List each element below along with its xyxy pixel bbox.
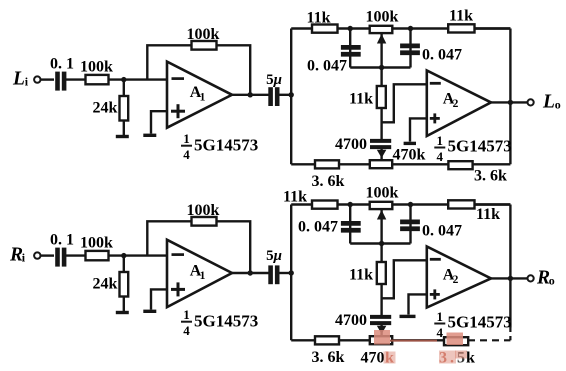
svg-text:24k: 24k xyxy=(93,275,118,292)
svg-text:11k: 11k xyxy=(449,8,473,25)
svg-text:100k: 100k xyxy=(366,185,399,202)
watermark red blob over 3.6k resistor xyxy=(447,333,464,346)
capacitor 4700 xyxy=(335,136,391,160)
wire A1 output xyxy=(232,272,269,274)
resistor 11k top-left xyxy=(283,189,338,209)
svg-text:o: o xyxy=(555,97,561,111)
watermark red blob over 470k resistor xyxy=(374,330,390,345)
resistor 11k top-left xyxy=(306,9,337,32)
svg-text:1: 1 xyxy=(183,131,190,146)
wire input to C-in xyxy=(41,254,55,256)
svg-text:L: L xyxy=(12,69,25,90)
resistor 11k top-right xyxy=(448,200,500,223)
wire A2 output xyxy=(491,277,527,279)
node top rail left junction xyxy=(348,26,353,31)
label 1/4 5G14573 for A2 xyxy=(434,309,511,340)
resistor 11k middle vertical xyxy=(349,244,386,285)
resistor 100k feedback of A1 xyxy=(187,26,220,50)
capacitor 0.1 (C5) xyxy=(50,232,74,267)
svg-text:5μ: 5μ xyxy=(266,248,282,264)
svg-text:4: 4 xyxy=(183,147,190,162)
svg-text:11k: 11k xyxy=(283,189,307,206)
node top rail left junction xyxy=(348,202,353,207)
label 1/4 5G14573 for A1 xyxy=(181,307,258,338)
resistor 24k xyxy=(93,256,129,311)
capacitor 0.047 left xyxy=(298,205,361,244)
node Li input label xyxy=(12,69,29,90)
wire R-in to A1 inverting input xyxy=(109,254,168,256)
resistor 3.6k bottom-left xyxy=(312,336,345,366)
resistor 470k on bottom rail xyxy=(361,336,395,366)
resistor 3.6k bottom-right (red-marked) xyxy=(444,337,468,345)
ground below 24k xyxy=(116,311,129,314)
svg-text:4: 4 xyxy=(437,149,444,164)
wire network top rail xyxy=(291,27,510,29)
svg-text:4700: 4700 xyxy=(335,136,367,153)
resistor 100k input xyxy=(80,234,113,260)
node Ro output label xyxy=(536,267,555,288)
ground at A1 + input xyxy=(143,310,156,313)
svg-text:2: 2 xyxy=(453,98,459,110)
svg-text:5G14573: 5G14573 xyxy=(448,313,512,332)
svg-text:5G14573: 5G14573 xyxy=(194,312,258,331)
capacitor 5u coupling xyxy=(266,248,282,284)
svg-text:0. 047: 0. 047 xyxy=(422,222,462,239)
op-amp A2 xyxy=(427,71,491,137)
svg-text:470k: 470k xyxy=(393,147,426,164)
wire shunt-cap bottoms xyxy=(350,66,410,68)
resistor 24k xyxy=(93,80,129,135)
svg-text:2: 2 xyxy=(453,274,459,286)
svg-text:3. 6k: 3. 6k xyxy=(312,173,345,190)
svg-text:1: 1 xyxy=(200,92,206,104)
svg-text:4: 4 xyxy=(437,325,444,340)
node A1 output junction xyxy=(248,92,253,97)
node junction 5u into network xyxy=(289,92,294,97)
capacitor 4700 xyxy=(335,312,391,336)
node junction at 24k xyxy=(121,77,126,82)
svg-text:0. 047: 0. 047 xyxy=(307,58,347,75)
svg-text:0. 1: 0. 1 xyxy=(50,56,74,73)
ground at A1 + input xyxy=(143,134,156,137)
resistor 100k input xyxy=(80,58,113,84)
wire A1 output xyxy=(232,94,269,96)
label 3.6k red-marked (bottom right) xyxy=(439,350,475,367)
wire A1 feedback loop xyxy=(147,45,250,95)
svg-text:11k: 11k xyxy=(349,267,373,284)
wire network right vertical xyxy=(509,29,511,165)
ground at A2 + input xyxy=(404,142,416,145)
node A2 output junction xyxy=(508,100,513,105)
node top rail right junction xyxy=(408,26,413,31)
svg-text:5G14573: 5G14573 xyxy=(448,137,512,156)
node Ri input label xyxy=(9,245,26,266)
svg-text:4: 4 xyxy=(183,323,190,338)
terminal Lo xyxy=(528,99,534,105)
wire bottom rail xyxy=(291,163,510,165)
node wiper junction xyxy=(379,65,384,70)
wire 11k to 4700 and jog to A2 - input xyxy=(382,260,427,315)
wire A1 + input to ground xyxy=(151,111,167,133)
watermark red blob over 3. of 3.5k xyxy=(439,351,467,364)
label 1/4 5G14573 for A1 xyxy=(181,131,258,162)
ground below 24k xyxy=(116,135,129,138)
svg-text:5G14573: 5G14573 xyxy=(194,136,258,155)
svg-text:1: 1 xyxy=(183,307,190,322)
wire top rail to right vertical xyxy=(475,27,511,29)
svg-text:24k: 24k xyxy=(93,99,118,116)
resistor 11k top-right xyxy=(448,8,474,33)
potentiometer 100k xyxy=(366,9,399,68)
wire input to C-in xyxy=(41,78,55,80)
svg-text:3. 6k: 3. 6k xyxy=(474,168,507,185)
wire network left vertical xyxy=(290,29,292,165)
potentiometer 100k xyxy=(366,185,399,244)
op-amp A1 (right channel) xyxy=(167,240,232,307)
wire top rail to right vertical xyxy=(475,203,511,205)
wire bottom rail (partly faded) xyxy=(291,339,510,341)
node Lo output label xyxy=(542,91,561,112)
capacitor 0.047 left xyxy=(307,29,361,75)
svg-text:4700: 4700 xyxy=(335,312,367,329)
node junction at 24k xyxy=(121,253,126,258)
svg-text:o: o xyxy=(549,273,555,287)
svg-text:3. 6k: 3. 6k xyxy=(312,349,345,366)
svg-text:11k: 11k xyxy=(476,206,500,223)
svg-text:100k: 100k xyxy=(80,234,113,251)
wire A2 output xyxy=(491,101,527,103)
capacitor 0.047 right xyxy=(400,205,462,244)
resistor 3.6k bottom-left xyxy=(312,160,345,190)
wire network right vertical (partly faded) xyxy=(509,205,511,341)
node junction 5u into network xyxy=(289,270,294,275)
svg-text:1: 1 xyxy=(437,133,444,148)
wire A1 feedback loop xyxy=(147,221,250,273)
capacitor 0.047 right xyxy=(400,29,462,68)
resistor 470k on bottom rail xyxy=(370,147,426,169)
label 1/4 5G14573 for A2 xyxy=(434,133,511,164)
svg-text:100k: 100k xyxy=(80,58,113,75)
wire 11k to 4700 and jog to A2 - input xyxy=(382,84,427,139)
wire network left vertical xyxy=(290,205,292,341)
op-amp A1 (left channel) xyxy=(167,62,232,128)
node A2 output junction xyxy=(508,276,513,281)
resistor 11k middle vertical xyxy=(349,68,386,109)
watermark red line on bottom rail xyxy=(390,340,437,342)
node top rail right junction xyxy=(408,202,413,207)
terminal Ro xyxy=(528,275,534,281)
node wiper junction xyxy=(379,241,384,246)
wire 5u to filter network xyxy=(277,272,292,274)
svg-text:L: L xyxy=(542,91,555,112)
svg-text:100k: 100k xyxy=(187,202,220,219)
svg-text:5μ: 5μ xyxy=(266,72,282,88)
wire A2 + input to ground xyxy=(410,118,427,141)
node A1 output junction xyxy=(248,270,253,275)
resistor 100k feedback of A1 xyxy=(187,202,220,226)
capacitor 0.1 (C1) xyxy=(50,56,74,91)
svg-text:11k: 11k xyxy=(306,9,330,26)
svg-text:100k: 100k xyxy=(187,26,220,43)
wire A2 + input to ground xyxy=(409,294,427,314)
resistor 3.6k bottom-right xyxy=(448,161,507,184)
svg-text:1: 1 xyxy=(437,309,444,324)
wire network top rail xyxy=(291,203,510,205)
terminal Li xyxy=(34,76,40,82)
svg-text:0. 1: 0. 1 xyxy=(50,232,74,249)
svg-text:k: k xyxy=(466,350,475,367)
capacitor 5u coupling xyxy=(266,72,282,106)
watermark red k of 470k xyxy=(384,352,396,364)
wire shunt-cap bottoms xyxy=(350,242,410,244)
ground at A2 + input xyxy=(400,315,416,318)
svg-text:0. 047: 0. 047 xyxy=(298,219,338,236)
wire A1 + input to ground xyxy=(151,289,167,309)
svg-text:100k: 100k xyxy=(366,9,399,26)
terminal Ri xyxy=(34,252,40,258)
wire R-in to A1 inverting input xyxy=(109,78,168,80)
svg-text:1: 1 xyxy=(200,270,206,282)
wire C-in to R-in xyxy=(64,78,86,80)
op-amp A2 xyxy=(427,247,491,308)
wire C-in to R-in xyxy=(64,254,86,256)
wire 5u to filter network xyxy=(277,94,292,96)
svg-text:0. 047: 0. 047 xyxy=(422,46,462,63)
svg-text:470: 470 xyxy=(361,350,385,367)
svg-text:11k: 11k xyxy=(349,91,373,108)
